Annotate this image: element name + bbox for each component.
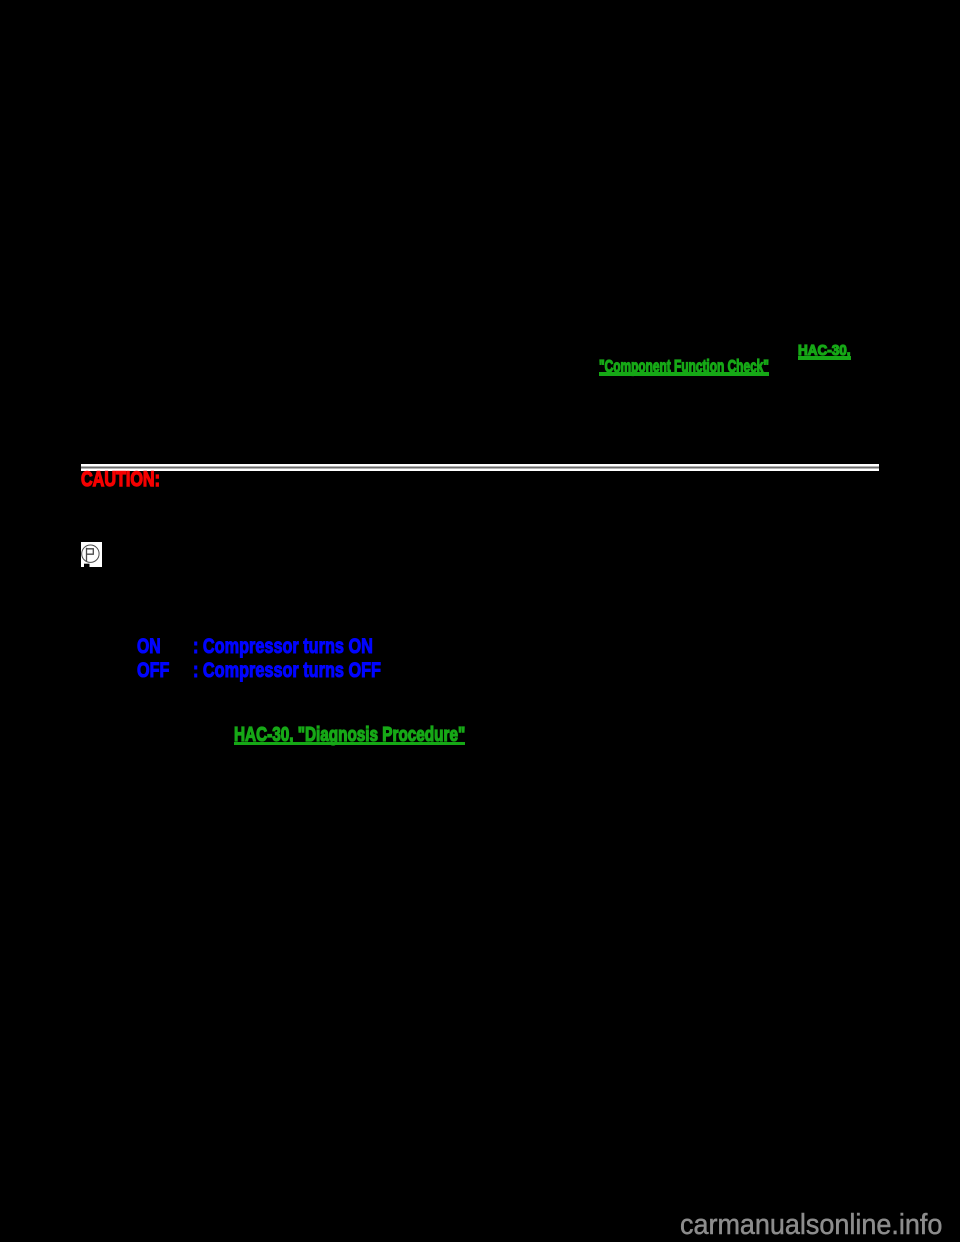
double horizontal rule <box>81 464 879 471</box>
link HAC-30 (line 1, top right) <box>798 344 850 359</box>
link "Component Function Check" (line 2) <box>599 358 769 376</box>
blue active test line 2: OFF <box>137 659 169 681</box>
watermark carmanualsonline.info <box>680 1211 942 1240</box>
underline of link HAC-30, "Diagnosis Procedure" <box>234 742 465 746</box>
blue active test line 1: ON <box>137 635 161 657</box>
link HAC-30, "Diagnosis Procedure" <box>234 725 465 745</box>
CAUTION: heading <box>81 468 160 490</box>
CONSULT icon (circled P in white box) <box>81 542 102 567</box>
underline of link "Component Function Check" <box>599 372 769 376</box>
underline of link HAC-30 <box>798 356 851 361</box>
